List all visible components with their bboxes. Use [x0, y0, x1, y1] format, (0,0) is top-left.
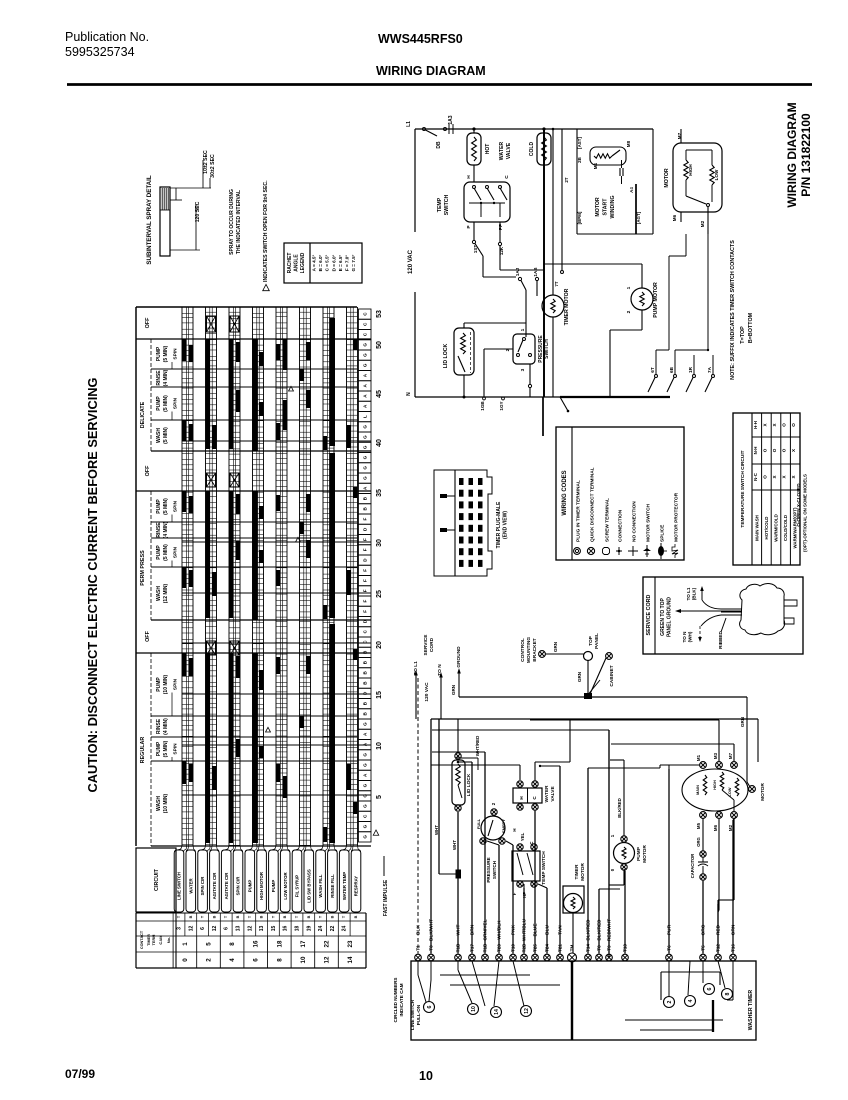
svg-text:HIGH: HIGH [688, 164, 693, 176]
wires upper area of lower schematic [432, 729, 609, 731]
svg-text:G: G [363, 783, 368, 787]
timer terminal T17 [469, 954, 476, 961]
svg-text:6: 6 [707, 987, 713, 990]
svg-text:MOTOR: MOTOR [760, 783, 766, 801]
svg-text:TEMPERATURE SWITCH CIRCUIT: TEMPERATURE SWITCH CIRCUIT [740, 450, 746, 527]
svg-text:SWITCH: SWITCH [492, 860, 497, 879]
horizontal link wires [458, 761, 472, 763]
svg-text:X: X [791, 475, 796, 479]
svg-text:6T: 6T [650, 367, 655, 373]
svg-text:(OPT)-OPTIONAL ON SOME MODELS: (OPT)-OPTIONAL ON SOME MODELS [803, 474, 808, 552]
svg-text:1: 1 [520, 328, 526, 331]
svg-text:18: 18 [295, 926, 301, 932]
svg-text:(BLK): (BLK) [692, 587, 697, 600]
svg-text:B: B [363, 650, 368, 654]
svg-text:CIRCLED NUMBERS: CIRCLED NUMBERS [393, 978, 398, 1023]
svg-text:T: T [177, 915, 181, 918]
svg-text:PUMP: PUMP [156, 741, 162, 756]
timer terminal T21 [557, 954, 564, 961]
trace cluster 5: PUMP / LOW MOTOR [275, 307, 277, 846]
timer terminal T5 [700, 954, 707, 961]
svg-text:GRN: GRN [577, 671, 582, 682]
svg-text:MOUNTING: MOUNTING [526, 637, 532, 663]
svg-text:G: G [363, 804, 368, 808]
svg-text:(WH): (WH) [688, 631, 693, 642]
svg-text:16: 16 [253, 940, 260, 947]
svg-text:12: 12 [188, 926, 194, 932]
svg-text:22: 22 [324, 940, 331, 947]
svg-text:C = 5.5°: C = 5.5° [325, 254, 330, 271]
svg-text:WATER: WATER [544, 785, 550, 803]
svg-text:D: D [363, 691, 368, 695]
svg-text:O: O [772, 448, 777, 452]
svg-text:M2: M2 [728, 824, 733, 831]
svg-text:16: 16 [283, 926, 289, 932]
svg-text:C: C [363, 312, 368, 316]
water valve (lower) [517, 781, 523, 787]
chart terminal/cam number table [172, 913, 174, 936]
pressure switch wires [484, 348, 513, 350]
svg-text:24: 24 [342, 926, 348, 932]
svg-text:12: 12 [524, 1008, 530, 1014]
motor start winding enclosure [576, 129, 578, 234]
svg-text:MAIN: MAIN [696, 785, 700, 795]
svg-text:2B: 2B [577, 157, 582, 163]
svg-text:6: 6 [224, 927, 230, 930]
pressure switch (lower) [481, 816, 505, 840]
svg-text:O: O [782, 448, 787, 452]
svg-text:N-H: N-H [753, 447, 758, 455]
svg-text:WASH: WASH [156, 796, 162, 811]
svg-text:CAM: CAM [158, 935, 163, 945]
svg-text:INDICATES SWITCH OPEN FOR 9±4: INDICATES SWITCH OPEN FOR 9±4 SEC. [263, 180, 269, 282]
svg-text:WHT/RED: WHT/RED [475, 736, 480, 757]
svg-text:TO N: TO N [682, 631, 687, 643]
svg-text:A: A [363, 394, 368, 398]
N rail [415, 396, 670, 398]
svg-text:(END VIEW): (END VIEW) [502, 511, 508, 539]
svg-text:C: C [363, 640, 368, 644]
svg-text:N: N [406, 392, 412, 396]
svg-text:C: C [363, 630, 368, 634]
svg-text:1: 1 [610, 834, 615, 837]
service cord plug body [740, 584, 785, 635]
svg-text:G = 7.5°: G = 7.5° [351, 254, 356, 271]
svg-text:A: A [363, 742, 368, 746]
svg-text:40: 40 [376, 439, 383, 447]
trace cluster 2: SPIN CIR / AGITATE CIR [205, 307, 207, 846]
svg-text:FAST IMPULSE: FAST IMPULSE [383, 879, 389, 916]
svg-text:G: G [363, 353, 368, 357]
svg-text:G: G [363, 425, 368, 429]
svg-text:RACHET: RACHET [287, 253, 293, 274]
svg-text:WIRING CODES: WIRING CODES [562, 470, 568, 515]
svg-text:PRESSURE: PRESSURE [486, 857, 491, 882]
svg-text:P/N 131822100: P/N 131822100 [799, 113, 813, 197]
svg-text:(5 MIN): (5 MIN) [163, 740, 169, 757]
svg-text:WATER: WATER [499, 142, 505, 161]
svg-text:SPIN: SPIN [173, 546, 179, 558]
svg-text:WINDING: WINDING [610, 195, 616, 218]
svg-text:G: G [363, 794, 368, 798]
svg-text:B: B [260, 915, 264, 918]
trace cluster 1: LINE SWITCH / WATER [181, 307, 183, 846]
svg-text:A: A [363, 384, 368, 388]
svg-text:YEL: YEL [520, 832, 525, 841]
svg-text:22: 22 [330, 926, 336, 932]
svg-text:B: B [363, 496, 368, 500]
svg-text:SERVICE: SERVICE [423, 634, 429, 656]
svg-text:T=TOP: T=TOP [740, 326, 746, 344]
svg-text:F: F [363, 589, 368, 592]
svg-text:GRN: GRN [740, 716, 745, 727]
timer terminal TM [568, 953, 577, 962]
svg-text:MOTOR: MOTOR [642, 845, 648, 863]
svg-text:120 VAC: 120 VAC [424, 682, 430, 702]
svg-text:WIRING DIAGRAM: WIRING DIAGRAM [785, 102, 799, 207]
svg-text:4: 4 [229, 958, 236, 962]
svg-text:B: B [236, 915, 240, 918]
svg-text:HOT/COLD: HOT/COLD [764, 517, 769, 540]
svg-text:OFF: OFF [145, 630, 151, 641]
svg-text:MOTOR: MOTOR [580, 863, 586, 881]
svg-text:C: C [363, 332, 368, 336]
svg-text:13: 13 [236, 926, 242, 932]
trace cluster 7: WASH FILL / RINSE FILL [322, 307, 324, 846]
svg-text:DB: DB [436, 141, 442, 149]
wire m5/m2 heavy [733, 819, 735, 900]
motor internal windings [703, 775, 707, 795]
cold water valve solenoid [543, 129, 545, 133]
circled cam numbers [424, 1002, 435, 1013]
timer terminal T16 [730, 954, 737, 961]
plug prongs [784, 600, 797, 606]
svg-text:120 VAC: 120 VAC [408, 249, 414, 274]
wiring codes box [556, 427, 684, 560]
ratchet letter boxes [359, 309, 372, 319]
svg-text:45: 45 [376, 390, 383, 398]
svg-text:X: X [791, 448, 796, 452]
wire m3 [718, 720, 720, 761]
svg-text:1: 1 [626, 286, 632, 289]
svg-text:PUMP: PUMP [156, 545, 162, 560]
lid lock (lower) [457, 719, 459, 753]
svg-text:CONTACT: CONTACT [140, 930, 144, 949]
svg-text:H: H [466, 175, 472, 179]
svg-text:FIL SYRUP: FIL SYRUP [295, 875, 300, 897]
chart cycle band separator lines [136, 338, 371, 340]
svg-text:RIBBED: RIBBED [718, 631, 723, 649]
svg-text:H: H [512, 828, 517, 831]
fast impulse pointer [373, 830, 379, 835]
top panel terminal [584, 652, 593, 661]
grn wire to motor [746, 697, 748, 782]
svg-text:X: X [772, 423, 777, 427]
svg-text:2: 2 [667, 1000, 673, 1003]
svg-text:E = 6.5°: E = 6.5° [338, 255, 343, 272]
svg-text:START: START [603, 198, 609, 216]
svg-text:A: A [363, 732, 368, 736]
svg-text:COLD/COLD: COLD/COLD [783, 515, 788, 541]
svg-text:G: G [363, 466, 368, 470]
12K wire [499, 222, 501, 242]
svg-text:1AB: 1AB [533, 267, 538, 277]
svg-text:TEMP SWITCH: TEMP SWITCH [541, 851, 547, 885]
heavy N rail segment [560, 396, 670, 398]
svg-text:3: 3 [520, 368, 526, 371]
circuit name plates [174, 850, 184, 912]
wire m7 [733, 744, 735, 761]
svg-text:F = 7.0°: F = 7.0° [345, 255, 350, 271]
svg-text:(5 MIN): (5 MIN) [163, 395, 169, 412]
svg-text:CONTROL: CONTROL [520, 638, 526, 662]
svg-text:D: D [363, 558, 368, 562]
svg-text:D: D [363, 527, 368, 531]
svg-text:HIGH: HIGH [713, 780, 717, 790]
svg-text:T: T [295, 915, 299, 918]
svg-text:A: A [363, 373, 368, 377]
svg-text:CABINET: CABINET [609, 665, 615, 686]
svg-text:B: B [363, 507, 368, 511]
svg-text:10: 10 [471, 1006, 477, 1012]
5-minute grid lines [182, 440, 371, 442]
svg-text:N-C: N-C [753, 472, 758, 481]
lid lock [454, 328, 474, 375]
line switch contact DB [423, 128, 426, 131]
svg-text:WIRING DIAGRAM: WIRING DIAGRAM [376, 64, 486, 78]
svg-text:1R: 1R [688, 366, 693, 373]
timer terminal T2B [521, 954, 528, 961]
svg-text:PANEL: PANEL [594, 633, 600, 649]
motor speed contact [685, 180, 687, 196]
svg-text:3: 3 [177, 927, 183, 930]
svg-text:HIGH MOTOR: HIGH MOTOR [259, 871, 264, 900]
svg-text:PLUG IN TIMER TERMINAL: PLUG IN TIMER TERMINAL [576, 480, 582, 542]
timer terminal T6 [666, 954, 673, 961]
svg-text:WHT: WHT [452, 840, 457, 850]
svg-text:P: P [466, 225, 472, 229]
svg-text:CORD: CORD [429, 637, 435, 652]
svg-text:OFF: OFF [145, 317, 151, 328]
svg-text:HOT: HOT [485, 144, 491, 155]
svg-text:G: G [363, 455, 368, 459]
svg-text:PUMP MOTOR: PUMP MOTOR [653, 282, 659, 318]
svg-text:FULL: FULL [476, 818, 481, 829]
timer plug male end view [434, 470, 492, 576]
WHT riser with splice [438, 719, 440, 874]
timer terminal T3 [428, 954, 435, 961]
svg-text:C: C [532, 796, 537, 800]
svg-text:F: F [363, 600, 368, 603]
svg-text:BLK/RED: BLK/RED [617, 798, 622, 818]
wires to water valve [519, 765, 521, 780]
svg-text:RINSE: RINSE [156, 370, 162, 386]
timer terminal T12 [715, 954, 722, 961]
svg-text:6: 6 [253, 958, 260, 962]
svg-text:M3: M3 [713, 752, 718, 759]
svg-text:O-OPEN X-CLOSED: O-OPEN X-CLOSED [796, 483, 801, 527]
svg-text:TIMER PLUG-MALE: TIMER PLUG-MALE [496, 501, 502, 548]
svg-text:B: B [283, 915, 287, 918]
svg-text:AGITATE CIR: AGITATE CIR [212, 872, 217, 900]
svg-text:H: H [519, 796, 524, 800]
svg-text:X: X [772, 475, 777, 479]
svg-text:WASH FILL: WASH FILL [318, 874, 323, 898]
start winding coil [590, 147, 626, 165]
svg-text:8: 8 [276, 958, 283, 962]
svg-text:MOTOR SWITCH: MOTOR SWITCH [646, 503, 652, 542]
wavy neck from traces to name plates [174, 846, 181, 852]
svg-text:WHT: WHT [434, 825, 439, 835]
svg-text:RINSE: RINSE [156, 718, 162, 734]
svg-text:O: O [762, 475, 767, 479]
svg-text:QUICK DISCONNECT TERMINAL: QUICK DISCONNECT TERMINAL [590, 467, 596, 542]
svg-text:MOTOR PROTECTOR: MOTOR PROTECTOR [674, 492, 680, 542]
ground bus [459, 696, 747, 698]
hot water valve solenoid [467, 133, 481, 165]
svg-text:T: T [248, 915, 252, 918]
svg-text:Publication No.: Publication No. [65, 30, 149, 44]
svg-text:5995325734: 5995325734 [65, 45, 135, 59]
svg-text:B: B [363, 701, 368, 705]
switch-open triangles in grid [296, 537, 301, 542]
svg-text:10: 10 [419, 1069, 433, 1083]
svg-text:PERM PRESS: PERM PRESS [140, 550, 146, 586]
svg-text:14: 14 [347, 956, 354, 963]
trace cluster 6: FIL SYRUP / LID SW BYPASS [299, 307, 301, 846]
svg-text:B: B [330, 915, 334, 918]
start capacitor contact [619, 168, 621, 176]
svg-text:RINSE FILL: RINSE FILL [330, 874, 335, 898]
timer terminal T8 [596, 954, 603, 961]
svg-text:B: B [363, 681, 368, 685]
svg-text:12: 12 [247, 926, 253, 932]
svg-text:PUMP: PUMP [636, 846, 642, 861]
svg-text:(5 MIN): (5 MIN) [163, 498, 169, 515]
svg-text:24: 24 [318, 926, 324, 932]
svg-text:TERM: TERM [152, 935, 156, 946]
svg-text:G: G [363, 753, 368, 757]
svg-text:LEGEND: LEGEND [300, 252, 306, 273]
header rule [67, 83, 812, 86]
svg-text:GRN: GRN [553, 641, 558, 652]
svg-text:REGULAR: REGULAR [140, 737, 146, 764]
svg-text:2: 2 [626, 310, 632, 313]
svg-text:G: G [363, 835, 368, 839]
svg-text:14: 14 [494, 1009, 500, 1015]
off-band hatch boxes [207, 316, 216, 332]
cord wire to N [701, 615, 721, 626]
svg-text:B: B [363, 671, 368, 675]
7T stub [561, 129, 563, 270]
svg-text:RESPRAY: RESPRAY [354, 876, 359, 897]
svg-text:G: G [363, 824, 368, 828]
temp switch box [473, 165, 475, 182]
svg-text:B=BOTTOM: B=BOTTOM [748, 312, 754, 343]
svg-text:TEMP: TEMP [437, 197, 443, 212]
svg-text:B: B [307, 915, 311, 918]
svg-text:(4 MIN): (4 MIN) [163, 521, 169, 538]
temp switch contacts [473, 186, 476, 189]
svg-text:B: B [189, 915, 193, 918]
svg-text:6B: 6B [669, 366, 674, 373]
svg-text:SUBINTERVAL SPRAY DETAIL: SUBINTERVAL SPRAY DETAIL [146, 175, 153, 264]
svg-text:CIRCUIT: CIRCUIT [154, 868, 160, 891]
svg-text:(5 MIN): (5 MIN) [163, 544, 169, 561]
wire to hot valve [473, 129, 475, 133]
trace cluster 8: WATER TEMP / RESPRAY [346, 307, 348, 846]
svg-text:0: 0 [182, 958, 189, 962]
svg-text:SPIN CIR: SPIN CIR [200, 876, 205, 896]
svg-text:PUMP: PUMP [156, 346, 162, 361]
green wire arrow [677, 610, 742, 612]
svg-text:T: T [319, 915, 323, 918]
svg-text:T: T [201, 915, 205, 918]
svg-text:F: F [363, 610, 368, 613]
svg-text:[AST]: [AST] [577, 137, 582, 149]
svg-text:F: F [363, 579, 368, 582]
svg-text:B: B [354, 915, 358, 918]
temperature switch circuit table [733, 413, 800, 565]
svg-text:20: 20 [376, 641, 383, 649]
svg-text:(10 MIN): (10 MIN) [163, 674, 169, 694]
svg-text:LID SW BYPASS: LID SW BYPASS [306, 869, 311, 903]
svg-text:A: A [363, 486, 368, 490]
svg-text:(4 MIN): (4 MIN) [163, 369, 169, 386]
svg-text:M8: M8 [626, 140, 631, 147]
svg-text:5: 5 [376, 795, 383, 799]
svg-text:2: 2 [491, 802, 496, 805]
svg-text:C: C [363, 322, 368, 326]
svg-text:50: 50 [376, 341, 383, 349]
timer terminal T1B [482, 954, 489, 961]
svg-text:1ST: 1ST [473, 245, 478, 254]
timer terminal T1 [415, 954, 422, 961]
svg-text:C: C [363, 814, 368, 818]
svg-text:SPIN: SPIN [173, 743, 179, 755]
svg-text:No.: No. [166, 937, 171, 943]
timer terminal T24 [544, 954, 551, 961]
svg-text:12: 12 [212, 926, 218, 932]
svg-text:1AJ: 1AJ [515, 267, 520, 276]
svg-text:O: O [762, 448, 767, 452]
ribbed label [721, 618, 726, 632]
svg-text:A: A [363, 404, 368, 408]
svg-text:TIMER: TIMER [147, 934, 151, 946]
heavy vertical bus [543, 129, 545, 397]
pressure switch [513, 334, 535, 364]
svg-text:WATER TEMP: WATER TEMP [342, 872, 347, 900]
svg-text:TM: TM [570, 945, 575, 952]
svg-text:L1: L1 [406, 121, 412, 127]
svg-text:CAPACITOR: CAPACITOR [690, 854, 695, 879]
svg-text:LINE SWITCH: LINE SWITCH [410, 999, 415, 1030]
temp switch to 1ST contact [473, 222, 475, 240]
plug key tabs [440, 494, 447, 498]
svg-text:T: T [342, 915, 346, 918]
svg-text:8: 8 [725, 992, 731, 995]
svg-text:MOTOR: MOTOR [595, 197, 601, 216]
svg-text:15: 15 [376, 691, 383, 699]
svg-text:O: O [791, 423, 796, 427]
cord wire to L1 [702, 600, 721, 609]
svg-text:(10 MIN): (10 MIN) [163, 793, 169, 813]
svg-text:X: X [762, 423, 767, 427]
dashed L1 riser to T1 [417, 678, 419, 954]
svg-text:SPIN: SPIN [173, 348, 179, 360]
svg-text:THE INDICATED INTERVAL: THE INDICATED INTERVAL [236, 190, 242, 254]
svg-text:MAIN WASH: MAIN WASH [754, 515, 759, 541]
